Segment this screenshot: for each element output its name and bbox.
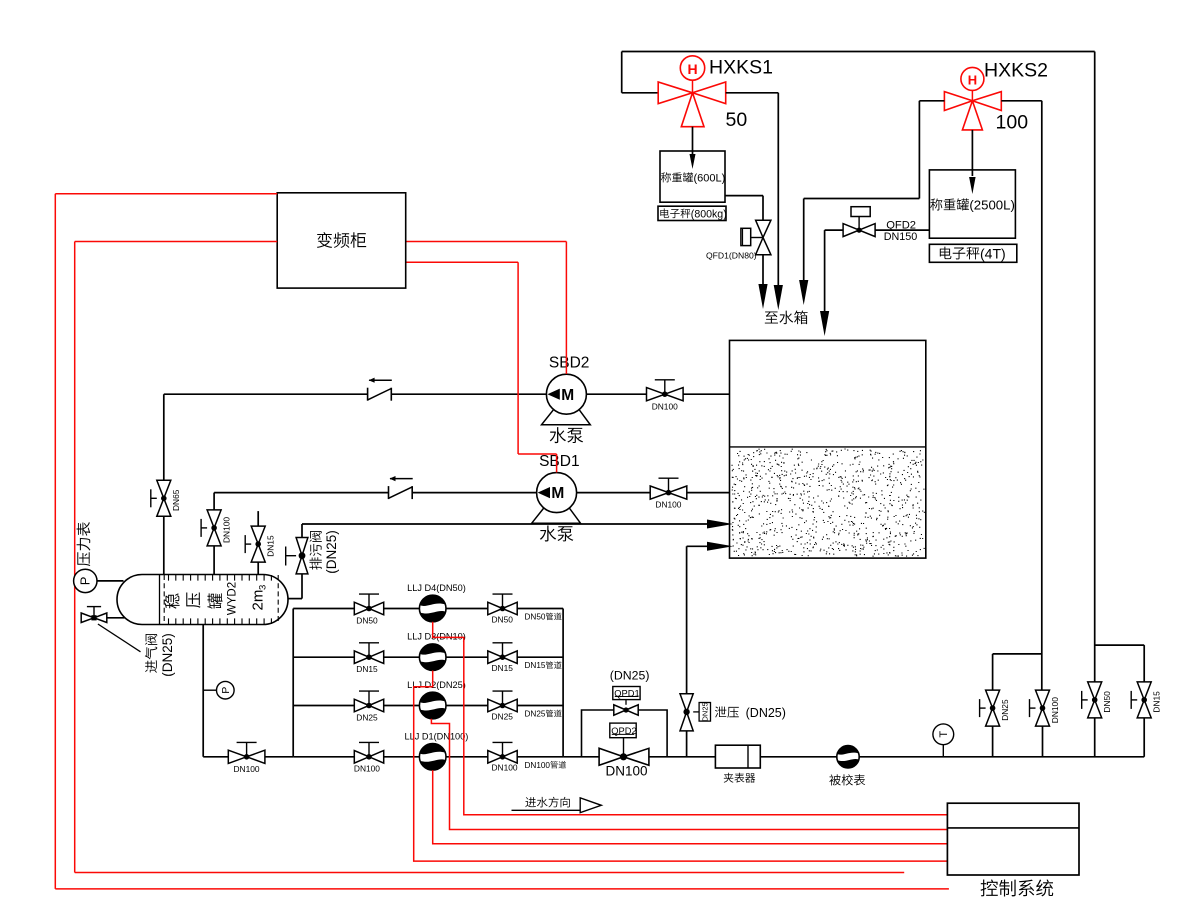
wire red VFD to SBD1 [406, 262, 557, 472]
wire drain line to tank [288, 520, 733, 599]
wire top header line [622, 52, 1095, 93]
svg-text:DN15: DN15 [356, 664, 378, 674]
svg-text:H: H [968, 73, 977, 88]
wire DN25 branch [993, 654, 1043, 757]
svg-text:DN25: DN25 [356, 712, 378, 722]
svg-text:DN100: DN100 [655, 500, 681, 510]
wire QFD1 to water box [762, 255, 764, 286]
wire HXKS2 right down to valve DN100 [1001, 101, 1042, 690]
label DN25 outlet [492, 711, 514, 721]
label DN15管道 [525, 661, 562, 670]
wire DN65 riser [163, 394, 165, 574]
water box tank [730, 340, 926, 558]
label LLJ D2(DN25) [407, 680, 466, 690]
label box QPD1 [613, 687, 640, 700]
label 压力表 [77, 522, 91, 566]
svg-text:DN65: DN65 [171, 489, 181, 511]
wire QFD2 left to water-box drop [825, 230, 844, 312]
svg-text:DN15: DN15 [266, 535, 276, 557]
label LLJ D1(DN100) [405, 731, 469, 741]
valve DN15 return [1131, 682, 1161, 718]
arrow to water box 4 [820, 311, 829, 336]
valve DN100 inlet row D1 [354, 742, 384, 773]
label 稳压罐 [164, 593, 222, 609]
wire HXKS1 right to water-box drop [726, 93, 779, 286]
wire HXKS2 to weighing tank 2500L [969, 130, 976, 194]
label DN100 outlet [492, 763, 518, 773]
wire main line segment 2 [649, 756, 716, 758]
check valve on SBD1 suction [389, 476, 413, 499]
air inlet valve 进气阀 [81, 607, 140, 652]
svg-text:DN25: DN25 [525, 710, 546, 719]
flow meter LLJ D1 [419, 744, 446, 771]
flow meter LLJ D3 [419, 644, 446, 671]
valve DN50 return [1082, 682, 1112, 718]
valve DN15 outlet row D3 [488, 643, 517, 664]
label DN15 outlet [492, 663, 514, 673]
wire main line segment 3 [760, 756, 837, 758]
svg-text:HXKS2: HXKS2 [984, 60, 1048, 82]
svg-text:LLJ D4(DN50): LLJ D4(DN50) [407, 583, 466, 593]
wire manifold inlet to left bus [265, 756, 293, 758]
svg-text:DN50: DN50 [1102, 691, 1112, 713]
valve DN50 outlet row D4 [488, 594, 517, 615]
svg-text:DN50: DN50 [525, 613, 546, 622]
wire left bus [292, 609, 294, 757]
wire DN50 return [1094, 52, 1096, 757]
svg-text:H: H [687, 61, 697, 77]
wire QFD2 right to 2500L tank [875, 229, 929, 231]
label (DN25) bypass [610, 669, 650, 683]
relief valve 泄压 [680, 694, 711, 731]
drain valve 排污阀 [286, 538, 308, 574]
svg-text:QFD1(DN80): QFD1(DN80) [706, 251, 757, 261]
wire red meter D4 to control [433, 622, 948, 815]
pump SBD2 [542, 355, 591, 443]
label 进气阀 (DN25) [145, 633, 175, 677]
meter clamp 夹表器 box [715, 745, 760, 768]
svg-text:M: M [551, 485, 564, 502]
label LLJ D4(DN50) [407, 583, 466, 593]
svg-text:(600L): (600L) [694, 173, 726, 185]
flow meter LLJ D4 [419, 595, 446, 622]
label LLJ D3(DN10) [407, 632, 466, 642]
svg-text:DN150: DN150 [884, 231, 918, 243]
svg-text:DN15: DN15 [525, 661, 546, 670]
label DN100 main valve [606, 764, 648, 779]
svg-text:DN25: DN25 [1000, 699, 1010, 721]
svg-text:QPD1: QPD1 [614, 688, 639, 698]
valve QFD1 [741, 220, 771, 255]
water level line [730, 446, 926, 448]
wire right bus [562, 609, 564, 757]
label 控制系统 [981, 879, 1054, 896]
label 2m3 [249, 585, 268, 611]
svg-text:(DN25): (DN25) [610, 669, 650, 683]
3-way control valve HXKS1 [658, 56, 726, 127]
arrow to water box 2 [774, 285, 783, 310]
pressure gauge P1 [74, 569, 124, 592]
svg-text:DN100: DN100 [234, 764, 260, 774]
label 夹表器 [724, 773, 756, 783]
temperature gauge T [933, 724, 954, 757]
svg-text:(DN25): (DN25) [324, 530, 339, 574]
svg-text:P: P [78, 577, 93, 586]
label HXKS1 [709, 57, 773, 79]
svg-text:SBD2: SBD2 [549, 355, 590, 372]
wire red meter D3 to control [414, 671, 948, 862]
valve DN100 SBD1 discharge [650, 478, 687, 510]
svg-text:DN100: DN100 [606, 764, 648, 779]
label 100 [996, 112, 1029, 134]
svg-text:DN25: DN25 [492, 711, 514, 721]
svg-text:DN100: DN100 [652, 401, 678, 411]
label 泄压 (DN25) [715, 706, 786, 720]
valve DN65 [151, 480, 181, 516]
wire red VFD to control system B [75, 242, 905, 873]
wire DN100 riser [213, 493, 215, 575]
label DN50 outlet [492, 614, 514, 624]
wire SBD1 suction line [214, 492, 729, 494]
electronic scale 4T box [929, 244, 1016, 262]
valve DN50 inlet row D4 [354, 594, 383, 625]
valve DN100 return [1030, 690, 1060, 726]
water stipple pattern [732, 449, 925, 556]
label 排污阀 (DN25) [309, 530, 339, 574]
svg-text:DN100: DN100 [1050, 697, 1060, 723]
valve DN100 riser [201, 510, 231, 546]
svg-text:DN100: DN100 [222, 517, 232, 543]
label to water box [765, 311, 808, 325]
pressure vessel 稳压罐 [117, 575, 288, 625]
flow meter LLJ D2 [419, 692, 446, 719]
label 50 [726, 109, 748, 131]
svg-text:DN50: DN50 [492, 614, 514, 624]
valve DN100 manifold inlet [228, 742, 265, 774]
valve DN15 [245, 526, 275, 562]
3-way control valve HXKS2 [944, 67, 1001, 129]
arrow to water box 1 [758, 284, 767, 309]
wire DN15 stub [257, 511, 259, 574]
svg-text:(4T): (4T) [980, 245, 1006, 261]
label 被校表 [829, 774, 865, 785]
pressure gauge P2 [203, 681, 234, 699]
electronic scale 800kg box [658, 206, 727, 220]
svg-text:(DN25): (DN25) [739, 706, 786, 720]
label DN50管道 [525, 613, 562, 622]
VFD cabinet box [277, 193, 406, 288]
wire main line to DN100 valve [563, 756, 599, 758]
svg-text:LLJ D2(DN25): LLJ D2(DN25) [407, 680, 466, 690]
svg-text:DN25: DN25 [701, 702, 710, 721]
label DN25管道 [525, 710, 562, 719]
bypass loop QPD [582, 710, 668, 757]
wire HXKS2 left to water-box drop [804, 101, 945, 281]
label QFD2 / DN150 [884, 220, 918, 243]
svg-text:T: T [938, 731, 950, 738]
svg-text:DN100: DN100 [525, 761, 551, 770]
svg-text:3: 3 [258, 585, 269, 590]
svg-text:SBD1: SBD1 [539, 453, 580, 470]
wire main line segment 4 [859, 756, 1144, 758]
valve DN25 return [980, 690, 1010, 726]
wire red meter D2 to control [431, 719, 947, 830]
label flow direction 进水方向 [512, 797, 602, 813]
svg-text:DN100: DN100 [354, 764, 380, 774]
svg-text:DN15: DN15 [1152, 691, 1162, 713]
valve DN25 outlet row D2 [488, 691, 517, 712]
svg-text:DN50: DN50 [356, 615, 378, 625]
valve QPD2 main DN100 [599, 738, 649, 766]
wire red meter D1 to control [433, 770, 948, 844]
wire red VFD to control system A [55, 194, 949, 889]
svg-text:2m: 2m [249, 590, 266, 611]
wire meter run DN15 [293, 656, 563, 658]
wire HXKS1 to weighing tank 600L [690, 127, 696, 169]
label box QPD2 [610, 723, 637, 738]
valve DN100 outlet row D1 [488, 742, 517, 763]
svg-text:DN15: DN15 [492, 663, 514, 673]
wire red VFD to SBD2 [406, 242, 567, 375]
label WYD2 [227, 582, 239, 615]
wire vessel bottom drop [203, 625, 228, 757]
wire meter run DN100 [293, 756, 563, 758]
pump SBD1 [532, 453, 581, 541]
svg-text:50: 50 [726, 109, 748, 131]
wire relief riser 泄压 [687, 542, 733, 757]
wire 600L tank to valve QFD1 [725, 196, 763, 221]
svg-text:(DN25): (DN25) [160, 633, 175, 677]
label HXKS2 [984, 60, 1048, 82]
wire SBD2 suction line [164, 393, 730, 395]
weighing tank 2500L box [929, 170, 1015, 238]
svg-text:WYD2: WYD2 [227, 582, 239, 615]
svg-text:(2500L): (2500L) [969, 198, 1014, 213]
label QFD1 (DN80) [706, 251, 757, 261]
svg-text:100: 100 [996, 112, 1029, 134]
valve QFD2 [843, 207, 875, 237]
meter under test 被校表 [837, 746, 859, 768]
svg-text:(800kg): (800kg) [691, 208, 727, 220]
svg-text:DN100: DN100 [492, 763, 518, 773]
svg-text:M: M [561, 387, 574, 404]
arrow to water box 3 [799, 280, 808, 305]
wire meter run DN25 [293, 705, 563, 707]
wire DN100 return lower [1042, 726, 1044, 757]
svg-text:QPD2: QPD2 [611, 726, 636, 736]
label DN100管道 [525, 761, 567, 770]
valve DN25 inlet row D2 [354, 691, 383, 722]
control system box [947, 803, 1079, 875]
check valve on SBD2 suction [368, 378, 392, 401]
valve QPD1 bypass [614, 700, 638, 716]
valve DN15 inlet row D3 [354, 643, 383, 674]
svg-text:HXKS1: HXKS1 [709, 57, 773, 79]
valve DN100 SBD2 discharge [647, 380, 684, 412]
weighing tank 600L box [660, 151, 725, 202]
wire meter run DN50 [293, 608, 563, 610]
wire DN15 branch [1095, 645, 1145, 757]
svg-text:P: P [220, 687, 232, 694]
